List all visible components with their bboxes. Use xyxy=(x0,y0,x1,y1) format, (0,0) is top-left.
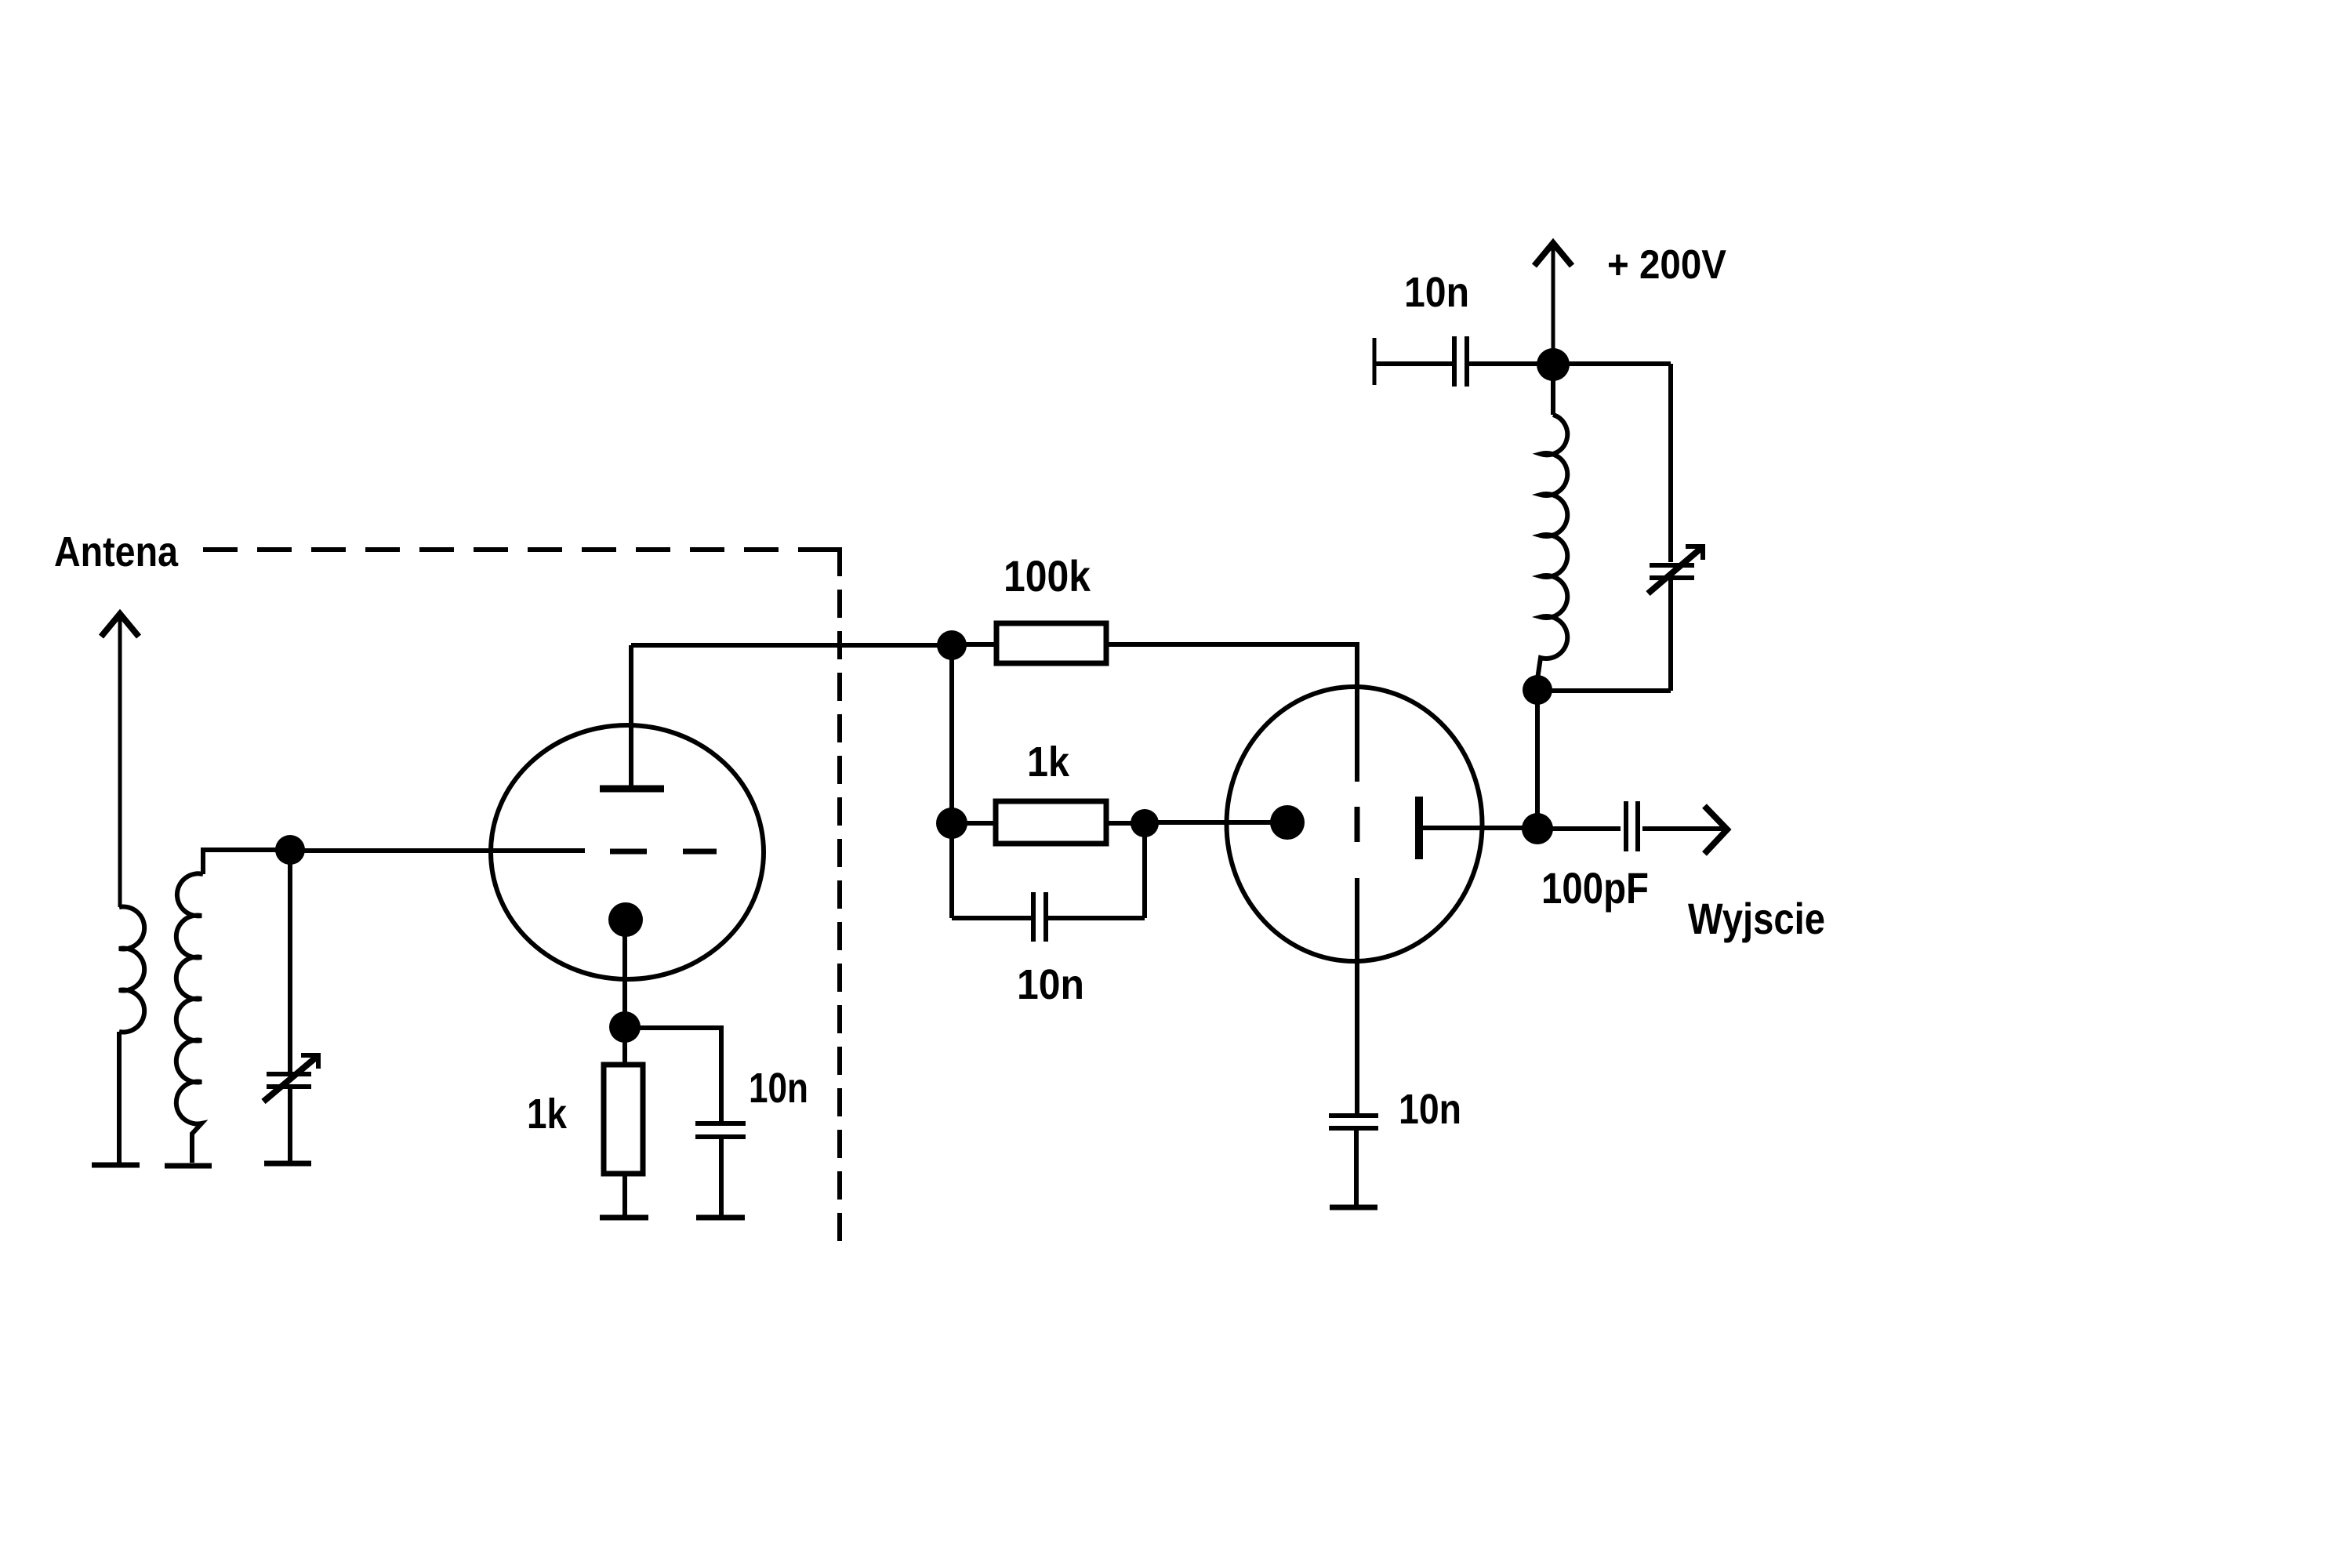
capacitor C2 10n parallel with 1k xyxy=(952,823,1145,942)
svg-text:100pF: 100pF xyxy=(1541,863,1649,913)
node D xyxy=(1522,813,1553,844)
svg-text:10n: 10n xyxy=(749,1065,808,1112)
node C xyxy=(1523,675,1552,705)
V1 grid dashes xyxy=(610,849,717,855)
triode V2 envelope xyxy=(1227,687,1483,961)
V1 anode xyxy=(600,645,664,789)
wire 100k to V2 grid xyxy=(1106,644,1357,782)
ground (C1) xyxy=(264,1161,311,1167)
svg-text:10n: 10n xyxy=(1399,1086,1461,1133)
dashed antenna boundary horizontal xyxy=(203,547,797,552)
svg-text:100k: 100k xyxy=(1004,551,1091,601)
wire dot1 to resistor 100k xyxy=(952,642,996,647)
output arrow xyxy=(1704,806,1727,854)
inductor L2 tank coil xyxy=(1537,415,1567,679)
wire node A to V1 grid xyxy=(290,848,585,853)
wire V1 anode to node dot1 xyxy=(631,643,952,648)
variable capacitor C1 xyxy=(263,1053,321,1102)
wire node A to L1b top xyxy=(203,850,290,874)
wire node D to node C xyxy=(1535,690,1540,829)
wire dot3 to V2 cathode xyxy=(1145,820,1287,825)
dashed antenna boundary vertical xyxy=(837,590,842,1243)
node dot2 xyxy=(936,808,967,839)
ground (secondary coil) xyxy=(165,1163,212,1169)
node cathode junction xyxy=(609,1011,641,1043)
ground (C3) xyxy=(696,1215,745,1221)
node B xyxy=(1537,348,1570,381)
wire node B down to tank coil xyxy=(1551,365,1555,415)
node dot3 xyxy=(1131,809,1159,837)
svg-text:Wyjscie: Wyjscie xyxy=(1688,894,1825,943)
inductor L1b secondary coil xyxy=(176,873,203,1163)
inductor L1a antenna primary coil xyxy=(119,907,144,1033)
wire node A to variable capacitor C1 xyxy=(288,850,292,1073)
wire junction to resistor R1 xyxy=(622,1027,627,1065)
wire R1 to ground xyxy=(622,1174,627,1215)
wire 1k to node dot3 xyxy=(1106,821,1132,826)
node A xyxy=(275,835,305,865)
wire L1a to ground xyxy=(117,1032,122,1163)
capacitor 100pF xyxy=(1537,801,1727,851)
triode V1 envelope xyxy=(491,725,764,979)
resistor 100k xyxy=(996,623,1106,663)
wire V1 cathode down xyxy=(622,920,627,1027)
wire dot2 to resistor 1k xyxy=(952,821,996,826)
V2 grid lower wire to capacitor C8 xyxy=(1355,878,1359,1114)
antenna arrow xyxy=(101,612,139,907)
svg-text:1k: 1k xyxy=(527,1091,568,1138)
V2 grid dash xyxy=(1355,807,1360,842)
wire C1 to ground xyxy=(288,1087,292,1161)
resistor 1k (grid stopper) xyxy=(996,801,1106,844)
ground (C8) xyxy=(1330,1205,1377,1210)
ground (R1) xyxy=(600,1215,648,1221)
svg-text:10n: 10n xyxy=(1404,269,1469,316)
svg-text:+ 200V: + 200V xyxy=(1607,242,1726,288)
resistor R1 1k cathode xyxy=(604,1065,643,1174)
variable capacitor C7 tank xyxy=(1537,364,1705,691)
svg-text:Antena: Antena xyxy=(54,528,179,575)
V2 cathode dot xyxy=(1270,805,1305,840)
node dot1 xyxy=(937,630,967,660)
capacitor C3 10n cathode bypass xyxy=(625,1028,746,1215)
svg-text:10n: 10n xyxy=(1017,961,1084,1008)
+200V power arrow xyxy=(1534,242,1572,365)
wire dot1 to dot2 xyxy=(949,645,954,823)
V1 cathode dot xyxy=(608,902,643,937)
capacitor C6 10n top xyxy=(1374,336,1553,387)
svg-text:1k: 1k xyxy=(1027,739,1070,786)
V2 anode xyxy=(1419,797,1537,859)
ground (antenna primary) xyxy=(92,1163,140,1168)
capacitor C8 10n at V2 bottom xyxy=(1329,1116,1378,1206)
